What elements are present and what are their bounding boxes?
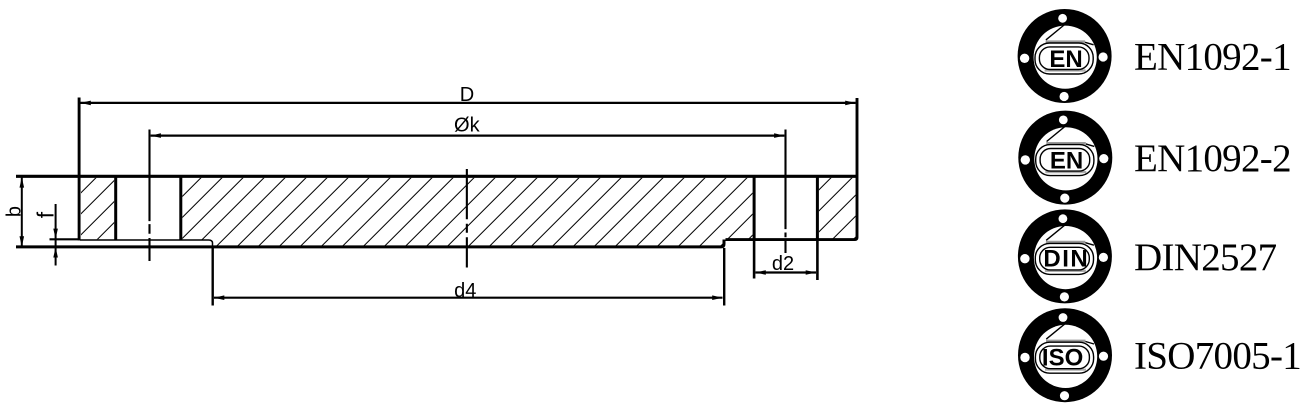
- svg-text:EN: EN: [1049, 46, 1082, 73]
- svg-text:EN1092-2: EN1092-2: [1134, 137, 1291, 180]
- svg-text:ISO: ISO: [1042, 344, 1083, 371]
- svg-text:DIN: DIN: [1043, 245, 1089, 272]
- svg-text:d4: d4: [454, 280, 476, 302]
- svg-text:Øk: Øk: [454, 115, 481, 137]
- svg-text:DIN2527: DIN2527: [1134, 236, 1277, 279]
- svg-text:f: f: [33, 211, 59, 218]
- svg-text:b: b: [4, 206, 26, 217]
- svg-text:EN: EN: [1050, 148, 1083, 175]
- svg-text:EN1092-1: EN1092-1: [1134, 36, 1291, 79]
- svg-text:d2: d2: [772, 253, 794, 275]
- svg-text:D: D: [460, 84, 474, 106]
- svg-text:ISO7005-1: ISO7005-1: [1134, 335, 1301, 378]
